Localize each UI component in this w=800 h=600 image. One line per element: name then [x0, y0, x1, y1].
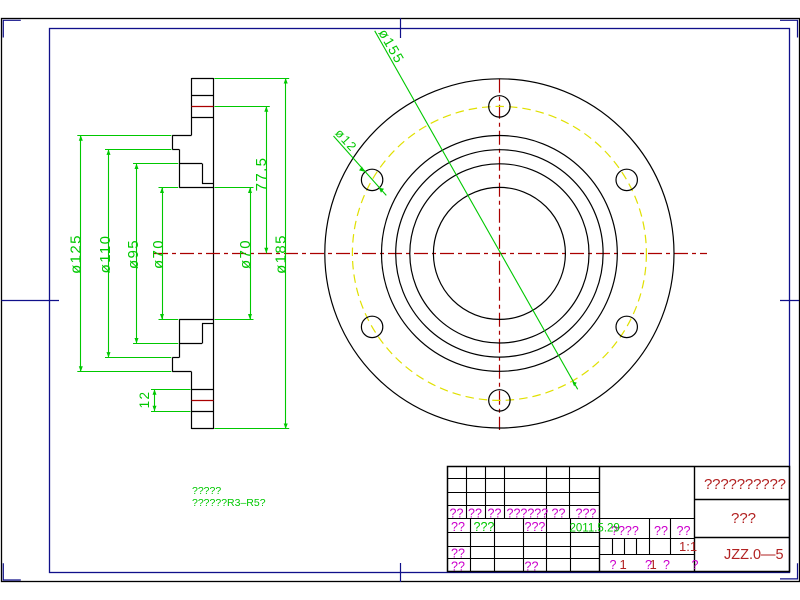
TITLE BLOCK	[448, 466, 790, 572]
dim &#248;95 ext bottom	[133, 343, 178, 345]
svg-text:?: ?	[692, 558, 699, 572]
dim &#248;95 line	[136, 164, 138, 344]
bolt hole top	[489, 96, 510, 117]
bolt hole lower-left	[361, 316, 382, 337]
dim &#248;125 line	[80, 135, 82, 371]
bolt hole centerline bottom (red)	[192, 400, 214, 402]
arrow &#248;95 bottom	[135, 338, 139, 344]
svg-text:??????: ??????	[507, 507, 549, 521]
bolt hole lower-right	[616, 316, 637, 337]
svg-text:??: ??	[451, 560, 465, 574]
circle &#248;125	[382, 136, 618, 372]
front view vertical center line (red dashed)	[499, 79, 501, 430]
divider left grid / middle	[599, 466, 601, 571]
bolt hole centerline top (red)	[192, 106, 214, 108]
dim &#248;110 ext top	[105, 149, 171, 151]
dim 77.5 ext top	[215, 106, 270, 108]
svg-text:12: 12	[137, 391, 152, 409]
green arrowheads	[79, 78, 577, 429]
recess horizontal bottom	[202, 323, 214, 325]
dim 12 line	[154, 389, 156, 411]
bolt hole bottom	[489, 390, 510, 411]
plate top edge	[192, 78, 214, 80]
plate left edge lower	[191, 372, 193, 429]
recess vertical top	[202, 164, 204, 184]
dim 77.5 line	[266, 106, 268, 253]
svg-text:?????: ?????	[192, 485, 221, 497]
bolt hole top edge a	[192, 95, 214, 97]
corner mark bottom-right	[780, 563, 798, 579]
svg-text:ø95: ø95	[125, 239, 142, 269]
svg-text:??: ??	[677, 524, 691, 538]
svg-text:??: ??	[525, 560, 539, 574]
svg-text:2011.5.29: 2011.5.29	[570, 523, 620, 535]
bore circle &#248;70	[433, 187, 565, 319]
svg-text:1: 1	[620, 557, 627, 572]
bore &#248;70 bottom line	[179, 319, 213, 321]
dim &#248;95 ext top	[133, 163, 178, 165]
dim &#248;70 right line	[250, 188, 252, 320]
arrow &#248;125 bottom	[79, 366, 83, 372]
dim &#248;70 left ext top	[159, 187, 179, 189]
svg-text:ø110: ø110	[97, 235, 114, 274]
plate bottom edge	[192, 428, 214, 430]
svg-text:ø125: ø125	[67, 234, 84, 274]
hub &#248;125 top surface	[172, 135, 191, 137]
bolt hole bottom edge b	[192, 411, 214, 413]
arrow &#248;125 top	[79, 135, 83, 141]
centering mark top	[400, 18, 402, 38]
svg-text:?: ?	[610, 558, 617, 572]
bolt hole bottom edge a	[192, 389, 214, 391]
bolt hole upper-left	[361, 169, 382, 190]
svg-text:JZZ.0—5: JZZ.0—5	[724, 547, 784, 563]
hub &#248;125 left face lower	[172, 358, 174, 372]
recess horizontal top	[202, 183, 214, 185]
&#248;95 surface bottom	[179, 343, 202, 345]
main horizontal center line (red dashed)	[154, 253, 707, 255]
GREEN DIMENSIONS	[77, 31, 577, 429]
svg-text:???: ???	[525, 520, 546, 534]
arrow &#248;110 bottom	[107, 352, 111, 358]
bolt hole upper-right	[616, 169, 637, 190]
dim &#248;155 diagonal line	[375, 31, 578, 390]
middle row lines	[599, 519, 695, 555]
arrow &#248;70R top	[248, 188, 252, 194]
svg-text:??: ??	[552, 507, 566, 521]
arrow &#248;70R bottom	[248, 314, 252, 320]
svg-text:???: ???	[576, 507, 597, 521]
green dimension texts	[67, 26, 408, 509]
svg-text:ø185: ø185	[272, 234, 289, 274]
corner mark top-right	[780, 20, 798, 37]
arrow 77.5 bottom	[264, 248, 268, 254]
middle verticals row ????	[613, 519, 671, 555]
arrow &#248;12 upper	[359, 167, 364, 172]
svg-text:???: ???	[731, 510, 756, 527]
svg-text:??: ??	[488, 507, 502, 521]
bolt hole top edge b	[192, 117, 214, 119]
svg-text:ø70: ø70	[237, 239, 254, 269]
left grid verticals rows1-4	[467, 466, 570, 519]
hub &#248;125 left face upper	[172, 135, 174, 149]
arrow &#248;185 top	[284, 78, 288, 84]
dim &#248;125 ext top	[77, 135, 171, 137]
arrow &#248;12 lower	[379, 188, 384, 193]
corner mark bottom-left	[3, 563, 21, 580]
dim 12 ext bottom	[151, 411, 191, 413]
svg-text:?: ?	[663, 558, 670, 572]
centering mark left	[2, 300, 60, 302]
centering mark right	[780, 300, 799, 302]
centering mark bottom	[400, 563, 402, 582]
step &#248;110 bottom	[172, 357, 179, 359]
arrow 12 bottom	[153, 406, 157, 412]
face at x179 upper	[179, 149, 181, 187]
svg-text:??: ??	[450, 507, 464, 521]
svg-text:??: ??	[468, 507, 482, 521]
face at x179 lower	[179, 320, 181, 358]
right section row lines	[695, 500, 790, 538]
dim 12 ext top	[151, 389, 191, 391]
dim &#248;70 left ext bottom	[159, 319, 179, 321]
svg-text:??????R3–R5?: ??????R3–R5?	[192, 497, 266, 509]
svg-text:??: ??	[654, 524, 668, 538]
svg-text:1:1: 1:1	[679, 539, 697, 554]
step &#248;110 top	[172, 149, 179, 151]
arrow &#248;70L bottom	[160, 314, 164, 320]
SECTION VIEW (left)	[172, 78, 213, 429]
outer circle &#248;185	[325, 79, 674, 428]
title block red texts	[620, 476, 787, 572]
arrow &#248;95 top	[135, 164, 139, 170]
divider middle / right	[694, 466, 696, 571]
dim &#248;185 line	[285, 78, 287, 429]
arrow &#248;70L top	[160, 188, 164, 194]
dim &#248;110 line	[108, 149, 110, 357]
svg-text:??: ??	[451, 547, 465, 561]
dim &#248;185 ext top	[215, 78, 290, 80]
dim &#248;70 left line	[162, 188, 164, 320]
dim &#248;125 ext bottom	[77, 371, 171, 373]
svg-text:77.5: 77.5	[253, 157, 270, 192]
bore &#248;70 top line	[179, 187, 213, 189]
svg-text:???: ???	[474, 520, 495, 534]
svg-text:??: ??	[451, 520, 465, 534]
svg-text:1: 1	[650, 557, 657, 572]
title block magenta texts	[450, 507, 699, 574]
circle &#248;95	[410, 164, 589, 343]
dim &#248;70 right ext top	[215, 187, 254, 189]
svg-text:ø70: ø70	[150, 239, 167, 269]
svg-text:??????????: ??????????	[704, 476, 786, 493]
corner mark top-left	[3, 20, 21, 37]
arrow 77.5 top	[264, 106, 268, 112]
recess vertical bottom	[202, 323, 204, 343]
dim &#248;110 ext bottom	[105, 357, 171, 359]
dim &#248;12 diagonal line	[334, 136, 387, 195]
dim &#248;185 ext bottom	[215, 428, 290, 430]
bolt circle &#248;155 (yellow dashed)	[352, 106, 646, 400]
arrow &#248;185 bottom	[284, 424, 288, 430]
hub &#248;125 bottom surface	[172, 371, 191, 373]
arrow &#248;155 at circle	[572, 382, 577, 387]
dim &#248;70 right ext bottom	[215, 319, 254, 321]
left grid verticals rows5-8	[471, 519, 571, 571]
&#248;95 surface top	[179, 163, 202, 165]
arrow &#248;110 top	[107, 149, 111, 155]
title block outline	[448, 467, 790, 572]
plate left edge upper	[191, 78, 193, 135]
arrow 12 top	[153, 389, 157, 395]
circle &#248;110	[396, 150, 603, 357]
left grid horizontal lines	[448, 479, 600, 559]
plate right edge	[213, 78, 215, 429]
